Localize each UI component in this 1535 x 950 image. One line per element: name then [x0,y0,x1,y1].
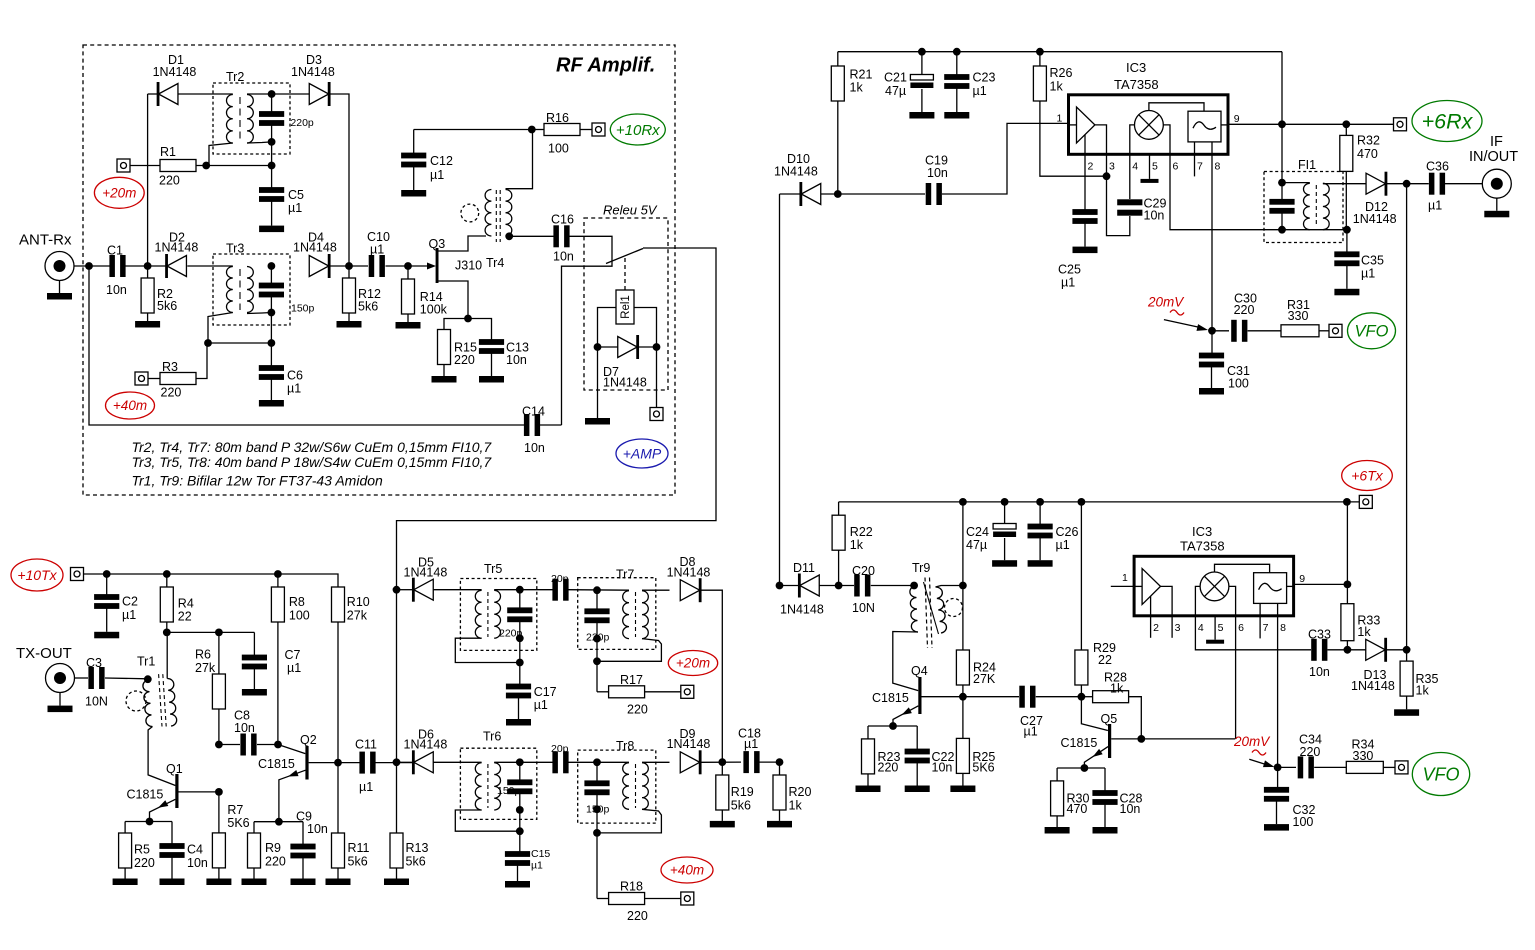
connector ANT-Rx [19,232,74,294]
svg-text:470: 470 [1067,802,1088,816]
resistor R21 [831,52,872,194]
node rail R26 [1036,48,1044,56]
ground (R13) [384,879,409,886]
resistor R22 [832,502,873,586]
svg-text:+AMP: +AMP [623,445,662,461]
svg-text:R3: R3 [162,360,178,374]
resistor R2 [141,266,177,321]
resistor R20 [773,762,811,821]
svg-text:R16: R16 [546,111,569,125]
node R33 bottom junction [1344,646,1352,654]
svg-text:C1815: C1815 [1061,736,1098,750]
svg-text:5K6: 5K6 [972,761,994,775]
svg-text:220: 220 [134,856,155,870]
note transformers line2 [132,454,493,470]
capacitor C5 [259,166,304,226]
svg-text:10n: 10n [1309,665,1330,679]
capacitor C34 [1278,733,1322,779]
resistor R1 [130,145,272,188]
wire D13 to R35 [1387,649,1407,651]
ground (C17) [506,719,531,726]
node FI1 bottom junction [1278,226,1286,234]
capacitor C29 [1117,196,1166,222]
svg-text:27k: 27k [347,609,368,623]
transistor Q1 C1815 [127,762,219,822]
svg-text:1N4148: 1N4148 [1353,212,1397,226]
wire TX bus to D6 row [396,590,398,763]
ground (R11) [326,879,351,886]
svg-text:Tr8: Tr8 [616,739,634,753]
svg-text:220: 220 [1234,303,1255,317]
wire Tr8 secondary top to D9 [642,761,670,763]
svg-text:220: 220 [159,174,180,188]
wire switch to TX bus [397,248,717,590]
svg-text:Tr6: Tr6 [483,730,501,744]
svg-text:R10: R10 [347,595,370,609]
svg-text:Tr5: Tr5 [484,562,502,576]
node Q5 collector junction [1137,735,1145,743]
relay coil Rel1 [616,290,634,324]
svg-text:+40m: +40m [670,863,704,878]
op-amp/mixer U1 IC3 TA7358 [1069,60,1229,154]
svg-text:R26: R26 [1050,66,1073,80]
ground (C35) [1334,289,1359,296]
transistor Q5 C1815 [1061,697,1236,768]
svg-text:C23: C23 [973,71,996,85]
node Q5 base junction [1078,693,1086,701]
svg-text:C14: C14 [522,404,545,418]
wire IC3 pin6 to FI1 bottom [1170,154,1347,229]
node Tr8 cap top junction [593,758,601,766]
svg-text:8: 8 [1280,622,1286,634]
diode D12 [1353,172,1397,226]
svg-text:+10Tx: +10Tx [17,567,57,583]
connector VFO (TX) [1395,761,1408,774]
svg-text:C6: C6 [287,369,303,383]
svg-text:47µ: 47µ [966,538,987,552]
note transformers line1 [132,439,493,455]
svg-text:Q2: Q2 [300,733,317,747]
transformer Tr5 [475,590,500,638]
capacitor C25 [1058,209,1098,289]
capacitor C19 [925,154,948,206]
ground (C5) [259,226,284,233]
connector TX-OUT [46,664,75,706]
wire bias node [167,631,255,633]
title RF Amplif. [556,55,655,77]
wire Tr8 return path [597,809,661,833]
svg-text:Q4: Q4 [911,664,928,678]
node C8 R6 junction [215,741,223,749]
svg-text:1N4148: 1N4148 [667,737,711,751]
wire C1 to D2 [126,265,167,267]
svg-text:100: 100 [289,609,310,623]
trimmer mark (dashed circle near Tr1) [126,691,146,711]
transformer Tr2 enclosure [213,70,290,154]
svg-text:µ1: µ1 [1428,199,1442,213]
wire Tr2 secondary bottom [247,142,272,143]
trimmer mark (dashed circle near Tr4) [461,204,479,222]
svg-text:C3: C3 [86,656,102,670]
wire Tr1 to Q1 base [148,727,175,786]
svg-text:VFO: VFO [1422,764,1459,784]
resistor R5 [119,822,155,879]
svg-text:330: 330 [1288,309,1309,323]
trimmer mark (dashed circle near Tr9) [945,599,963,617]
wire D10 to C19 [821,193,925,195]
svg-text:µ1: µ1 [1024,725,1038,739]
svg-text:100: 100 [1228,376,1249,390]
svg-text:µ1: µ1 [287,661,301,675]
wire C19 to IC3 pin1 [942,123,1069,194]
svg-text:µ1: µ1 [531,859,543,871]
svg-text:1k: 1k [1110,681,1124,695]
svg-text:+10Rx: +10Rx [616,122,660,139]
transistor Q2 C1815 [258,733,360,822]
ground (R23) [856,786,881,793]
svg-text:100k: 100k [420,303,448,317]
resistor R35 [1400,650,1438,710]
wire pin9 junction down to FI1 [1281,124,1283,182]
svg-text:8: 8 [1215,161,1221,173]
svg-text:1N4148: 1N4148 [603,376,647,390]
resistor R10 [332,587,370,763]
capacitor C6 [259,343,303,400]
wire FI1 coil to D12 [1323,183,1366,185]
svg-text:20p: 20p [551,743,569,755]
capacitor FI1 internal [1269,183,1294,230]
ground (R7) [206,879,231,886]
capacitor C32 [1264,767,1316,829]
wire IC3 pin7 stub [1194,154,1196,176]
diode D8 [667,555,711,602]
node Tr9 input junction [910,582,918,590]
resistor R30 [1051,768,1090,827]
resistor R29 [1075,502,1116,697]
wire D12 to C36 [1387,183,1429,185]
svg-text:10n: 10n [932,761,953,775]
wire +6Tx rail [839,501,1360,503]
wire 20p to Tr7 [569,589,630,592]
capacitor C1 [106,244,127,298]
wire IC3 pin4 to C29 [1129,154,1131,199]
capacitor C16 [551,213,574,264]
svg-text:220: 220 [1300,745,1321,759]
ground (IC3 TX pin5) [1206,616,1224,644]
svg-text:7: 7 [1263,622,1269,634]
svg-text:µ1: µ1 [534,698,548,712]
svg-text:10n: 10n [524,441,545,455]
svg-text:C36: C36 [1426,160,1449,174]
svg-text:27k: 27k [195,661,216,675]
svg-text:9: 9 [1234,113,1240,125]
svg-text:1N4148: 1N4148 [774,165,818,179]
wire return to C6 node [208,342,271,344]
node Tr6 top junction [516,758,524,766]
wire D3 to D4 column [330,94,349,266]
node D11 bus junction [776,582,784,590]
node Q4 collector junction [959,693,967,701]
node Tr2 top junction [268,90,276,98]
svg-text:22: 22 [178,610,192,624]
diode D7 [598,335,657,390]
wire Q2 emitter node [254,821,303,823]
pin labels IC3 (TX) [1122,572,1305,634]
svg-text:220p: 220p [290,117,314,129]
transformer Tr6 [475,763,500,810]
capacitor C22 [905,726,955,786]
wire IC3 pin9 line [1228,123,1394,125]
capacitor 220p (Tr2) [259,94,314,142]
svg-text:1N4148: 1N4148 [293,241,337,255]
svg-text:1: 1 [1122,572,1128,584]
ground (C31) [1199,388,1224,395]
capacitor C9 [290,809,328,878]
diode D11 [780,561,824,616]
svg-text:C2: C2 [122,595,138,609]
svg-text:FI1: FI1 [1298,158,1316,172]
transformer Tr7 [623,591,649,639]
oval +20m (TX) [668,651,717,676]
svg-text:10n: 10n [106,283,127,297]
svg-text:C26: C26 [1056,525,1079,539]
wire C14 to switch link [540,424,562,426]
oval +40m [106,392,155,419]
ground (C32) [1264,824,1289,831]
svg-text:10n: 10n [1120,802,1141,816]
resistor R34 [1346,737,1383,773]
connector +10Tx [71,568,84,581]
node Tr1 input junction [144,675,152,683]
resistor R28 [1081,671,1141,739]
transformer Tr1 [137,655,177,727]
svg-text:ANT-Rx: ANT-Rx [19,232,72,249]
svg-text:Tr1, Tr9: Bifilar 12w Tor FT37: Tr1, Tr9: Bifilar 12w Tor FT37-43 Amidon [132,473,384,489]
svg-text:470: 470 [1357,147,1378,161]
wire relay coil left [598,308,617,348]
svg-text:C1815: C1815 [258,757,295,771]
node Tr7 cap bottom junction [593,635,601,643]
ground (C21) [909,112,934,119]
ground (C6) [259,400,284,407]
node R12 junction [345,262,353,270]
transformer Tr4 [485,190,512,270]
node rail C26 [1036,498,1044,506]
node Q3 source junction [464,315,472,323]
wire C33 to D13 [1328,649,1367,651]
wire Tr4 to C16 [509,235,553,237]
transformer Tr7 enclosure [578,568,656,650]
diode D13 [1351,638,1395,693]
capacitor C10 [367,230,390,277]
svg-text:R1: R1 [160,145,176,159]
svg-text:Q5: Q5 [1101,712,1118,726]
svg-text:2: 2 [1153,622,1159,634]
svg-text:IC3: IC3 [1126,60,1146,75]
wire FI1 cap to coil top [1282,182,1310,184]
svg-text:10n: 10n [553,250,574,264]
node Tr3 top junction [268,262,276,270]
connector +20m output [681,685,694,698]
capacitor C15 [505,848,551,881]
resistor R4 [160,574,194,632]
svg-text:5k6: 5k6 [731,798,751,812]
svg-text:1N4148: 1N4148 [291,65,335,79]
wire C16 to switch [562,236,613,425]
ground (C15) [505,881,530,888]
oval VFO TX [1412,753,1469,796]
svg-text:Q1: Q1 [166,762,183,776]
capacitor C11 [355,737,377,794]
svg-text:C35: C35 [1361,253,1384,267]
svg-text:10n: 10n [234,721,255,735]
connector +AMP [650,408,663,421]
resistor R12 [343,266,381,321]
ground (R5) [113,879,138,886]
oval +20m [94,177,144,208]
svg-text:27K: 27K [973,672,996,686]
resistor R31 [1281,298,1319,337]
svg-text:1N4148: 1N4148 [1351,679,1395,693]
wire D6 to Tr6 [433,761,481,763]
filter FI1 enclosure [1264,158,1343,243]
svg-text:C33: C33 [1308,627,1331,641]
node Q2 base junction [274,741,282,749]
svg-text:IF: IF [1490,134,1503,150]
transformer Tr3 enclosure [213,242,290,326]
svg-text:R18: R18 [620,880,643,894]
resistor R15 [438,319,477,377]
svg-text:R5: R5 [134,843,150,857]
node Q5 emitter junction [1081,764,1089,772]
svg-text:10N: 10N [852,601,875,615]
diode D3 [291,53,335,106]
node rail C21 [918,48,926,56]
svg-text:1k: 1k [1416,684,1430,698]
wire IC3(TX) pin7 stub [1259,616,1261,639]
wire IC3(TX) pin6 to Q5 collector [1235,616,1237,739]
wire C36 to IF connector [1445,183,1482,185]
node R17 junction [593,657,601,665]
svg-text:6: 6 [1173,161,1179,173]
svg-text:1N4148: 1N4148 [667,566,711,580]
node D7 anode [594,343,602,351]
relay switch blade [606,249,643,264]
capacitor 20p (lower) [551,743,569,773]
ground (C2) [94,632,119,639]
wire Tr4 secondary top to R16 node [506,130,533,189]
svg-text:µ1: µ1 [370,243,384,257]
wire D1 to Tr2 [178,93,233,95]
node pin9 FI1 junction [1278,120,1286,128]
wire Tr5 return path [455,638,520,662]
svg-text:150p: 150p [497,785,521,797]
node Q2 collector R10 junction [334,759,342,767]
svg-text:47µ: 47µ [885,84,906,98]
ground (C13) [479,376,504,383]
svg-text:3: 3 [1109,161,1115,173]
svg-text:5K6: 5K6 [227,816,249,830]
ground (R30) [1045,827,1070,834]
node D13 output junction [1403,646,1411,654]
svg-text:220: 220 [627,909,648,923]
svg-text:22: 22 [1098,653,1112,667]
svg-text:220: 220 [878,761,899,775]
svg-text:1k: 1k [850,81,864,95]
node C5 junction [268,162,276,170]
svg-text:2: 2 [1088,161,1094,173]
svg-text:R7: R7 [227,803,243,817]
wire D7 cathode to connector [656,347,658,408]
wire Q5 emitter node [1057,767,1105,769]
wire relay coil right [634,308,657,348]
svg-text:+20m: +20m [676,656,710,671]
svg-text:1N4148: 1N4148 [155,241,199,255]
note transformers line3 [132,473,384,489]
wire Tr7 secondary top to D8 [642,589,670,591]
wire IC3(TX) pin2 stub [1150,616,1152,638]
node pin9 R32 junction [1342,120,1350,128]
node R1 junction [202,162,210,170]
svg-text:µ1: µ1 [973,84,987,98]
wire IC3(TX) pin3 stub [1171,616,1173,638]
wire D12 node down to D13 node [1406,184,1408,650]
svg-text:TA7358: TA7358 [1180,538,1225,553]
svg-text:1k: 1k [1050,79,1064,93]
svg-text:TX-OUT: TX-OUT [16,645,72,662]
wire D2 to Tr3 [187,265,233,267]
svg-text:1N4148: 1N4148 [404,737,448,751]
svg-text:+6Tx: +6Tx [1351,467,1384,483]
wire Tr5 secondary top [494,589,553,591]
wire C11 to D6 [376,762,414,764]
oval +6Rx [1412,101,1482,142]
diode D1 [148,53,197,106]
capacitor C12 [401,130,453,191]
svg-text:1N4148: 1N4148 [153,65,197,79]
svg-text:10n: 10n [1144,208,1165,222]
svg-text:+6Rx: +6Rx [1422,110,1474,134]
node C18 bus junction [776,758,784,766]
connector +20m input [117,159,130,172]
capacitor C33 [1308,627,1331,679]
wire C20 to Tr9 [871,585,914,587]
node Tr4 output junction [505,232,513,240]
diode D2 [155,231,199,279]
svg-text:C12: C12 [430,154,453,168]
wire junction up to D1 [147,94,149,266]
connector +6Tx [1359,495,1372,508]
node C17 junction [516,659,524,667]
svg-text:7: 7 [1197,161,1203,173]
wire Tr6 secondary top [494,761,553,763]
label 20mV (TX) [1233,734,1271,755]
svg-text:R13: R13 [406,841,429,855]
ground (R12) [337,321,362,328]
relay enclosure Releu 5V [584,203,668,390]
ground (R25) [950,786,975,793]
capacitor C4 [159,822,208,879]
diode D10 [774,152,821,206]
wire 220p to C5 node [271,142,273,166]
wire D4 to C10 [330,265,368,267]
node Q1 collector junction [215,788,223,796]
svg-text:R19: R19 [731,785,754,799]
capacitor C18 [738,726,761,773]
node Tr5 bottom junction [516,634,524,642]
svg-text:1k: 1k [1357,625,1371,639]
node rail C2 [103,570,111,578]
